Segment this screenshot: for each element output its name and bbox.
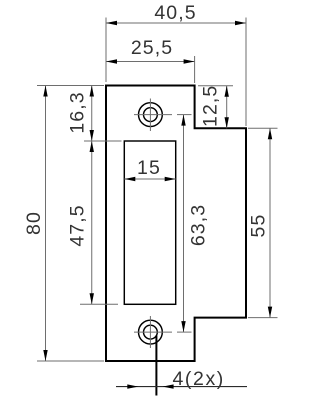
centerline H1 horizontal	[134, 114, 172, 116]
dimension 12,5 arrow top	[225, 86, 229, 97]
leader 4(2x) arrow pointing left at hole right edge	[163, 384, 174, 388]
leader 4(2x) vertical line from hole H2	[155, 336, 157, 396]
dimension 15 line	[124, 178, 175, 180]
dimension 63,3 arrow bottom	[181, 321, 185, 332]
svg-text:63,3: 63,3	[188, 204, 210, 246]
dimension 55 arrow top	[268, 128, 272, 139]
dimension 25,5 arrow right	[184, 59, 195, 63]
hole H2 (bottom) outer countersink circle	[139, 320, 163, 344]
svg-text:55: 55	[248, 214, 270, 238]
dimension 16,3 extension line at cutout top	[84, 140, 122, 142]
svg-text:40,5: 40,5	[154, 2, 196, 24]
dimension 40,5 arrow right	[235, 21, 246, 25]
dimension 47,5 arrow top	[90, 141, 94, 152]
dimension 15 arrow right	[165, 177, 176, 181]
dimension 12,5 extension line top	[198, 85, 233, 87]
dimension 12,5 arrow bottom	[225, 117, 229, 128]
dimension 80 extension line bottom	[37, 360, 104, 362]
centerline H2 vertical	[149, 316, 151, 348]
leader 4(2x) horizontal line	[116, 386, 247, 388]
dimension 55 extension line bottom	[248, 317, 278, 319]
dimension 16,3 arrow top	[90, 86, 94, 97]
dimension 80 extension line top	[37, 85, 104, 87]
dimension 47,5 line	[91, 141, 93, 304]
rectangular cutout	[124, 141, 175, 304]
dimension 55 extension line top	[248, 127, 278, 129]
hole H1 (top) inner circle	[144, 108, 158, 122]
dimension 80 line	[45, 86, 47, 362]
svg-text:25,5: 25,5	[131, 37, 173, 59]
svg-text:80: 80	[23, 211, 45, 235]
svg-text:4(2x): 4(2x)	[172, 368, 224, 390]
centerline H1 vertical	[149, 99, 151, 132]
centerline H2 horizontal	[134, 331, 172, 333]
dimension 80 arrow bottom	[43, 350, 47, 361]
dimension 40,5 extension line right	[245, 18, 247, 127]
dimension 16,3 line	[91, 86, 93, 142]
dimension 63,3 line	[183, 115, 185, 333]
leader 4(2x) arrow pointing right at hole left edge	[127, 384, 138, 388]
svg-text:12,5: 12,5	[200, 85, 222, 127]
dimension 40,5 line	[106, 22, 246, 24]
dimension 40,5 extension line left	[105, 18, 107, 83]
dimension 63,3 arrow top	[181, 115, 185, 126]
svg-text:15: 15	[137, 157, 161, 179]
dimension 12,5 line	[226, 86, 228, 129]
svg-text:47,5: 47,5	[67, 204, 89, 246]
dimension 47,5 extension line at cutout bottom	[80, 303, 118, 305]
dimension 25,5 line	[106, 61, 195, 63]
svg-text:16,3: 16,3	[67, 91, 89, 133]
hole H2 (bottom) inner circle	[144, 325, 158, 339]
hole H1 (top) outer countersink circle	[139, 103, 163, 127]
dimension 15 arrow left	[124, 177, 135, 181]
dimension 25,5 arrow left	[106, 59, 117, 63]
dimension 55 arrow bottom	[268, 307, 272, 318]
dimension 47,5 arrow bottom	[90, 293, 94, 304]
dimension 25,5 extension line right	[194, 56, 196, 83]
dimension 55 line	[269, 128, 271, 317]
dimension 16,3 arrow bottom	[90, 130, 94, 141]
dimension 80 arrow top	[43, 86, 47, 97]
plate outline	[106, 86, 246, 362]
dimension 40,5 arrow left	[106, 21, 117, 25]
